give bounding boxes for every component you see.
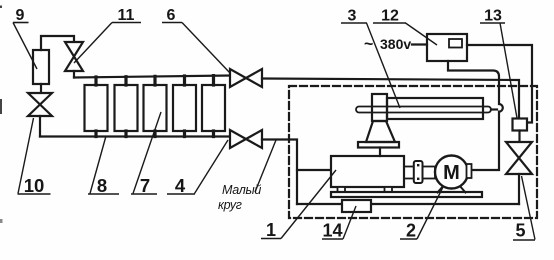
svg-text:13: 13	[484, 8, 502, 25]
svg-text:11: 11	[118, 7, 135, 24]
svg-text:8: 8	[97, 175, 107, 196]
svg-text:Малый: Малый	[222, 183, 261, 197]
svg-text:M: M	[443, 162, 460, 184]
svg-text:14: 14	[322, 221, 342, 241]
svg-text:9: 9	[16, 7, 25, 24]
svg-text:380v: 380v	[380, 36, 411, 52]
svg-text:7: 7	[140, 175, 150, 196]
svg-text:1: 1	[266, 220, 276, 240]
svg-text:4: 4	[175, 175, 186, 196]
svg-text:круг: круг	[218, 198, 242, 212]
svg-text:12: 12	[381, 8, 399, 25]
svg-text:10: 10	[24, 175, 45, 196]
svg-text:6: 6	[167, 7, 176, 24]
svg-text:~: ~	[364, 36, 373, 53]
svg-text:5: 5	[515, 221, 525, 241]
svg-text:2: 2	[406, 221, 416, 241]
svg-text:3: 3	[348, 8, 357, 25]
